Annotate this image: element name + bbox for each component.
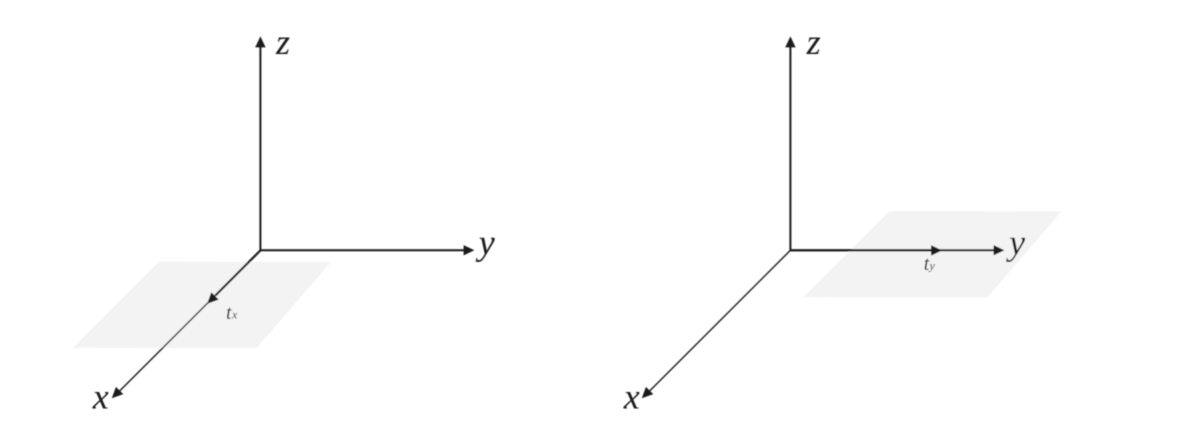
left tx vector arrow — [207, 250, 260, 303]
svg-text:y: y — [1006, 222, 1025, 262]
right ty vector arrow — [790, 245, 942, 255]
svg-text:y: y — [476, 222, 495, 262]
right xy-plane patch — [803, 211, 1061, 298]
left tx label — [226, 302, 238, 324]
left x axis — [112, 250, 261, 398]
right y axis — [790, 245, 1004, 255]
svg-text:x: x — [231, 308, 238, 322]
right z axis — [785, 36, 795, 250]
svg-text:x: x — [92, 377, 109, 417]
svg-text:z: z — [275, 22, 290, 62]
right ty label — [924, 253, 936, 275]
left z axis — [255, 36, 265, 250]
left xy-plane patch — [73, 262, 331, 348]
svg-text:z: z — [806, 22, 821, 62]
left y axis — [260, 245, 474, 255]
right x axis — [642, 250, 791, 398]
svg-text:y: y — [929, 259, 936, 273]
svg-text:x: x — [623, 377, 640, 417]
